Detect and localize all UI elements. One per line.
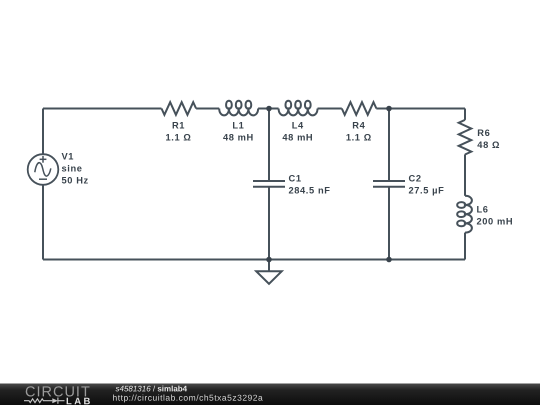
svg-text:L1: L1: [232, 120, 244, 130]
svg-text:284.5 nF: 284.5 nF: [289, 186, 331, 196]
svg-text:48 Ω: 48 Ω: [477, 140, 500, 150]
svg-text:http://circuitlab.com/ch5txa5z: http://circuitlab.com/ch5txa5z3292a: [112, 393, 263, 403]
svg-text:C1: C1: [289, 174, 302, 184]
svg-text:V1: V1: [62, 151, 75, 161]
svg-text:LAB: LAB: [66, 396, 93, 405]
svg-text:200 mH: 200 mH: [477, 217, 514, 227]
svg-text:1.1 Ω: 1.1 Ω: [166, 132, 192, 142]
svg-text:1.1 Ω: 1.1 Ω: [346, 132, 372, 142]
svg-text:48 mH: 48 mH: [282, 132, 313, 142]
svg-text:R4: R4: [352, 120, 365, 130]
svg-text:sine: sine: [62, 163, 83, 173]
svg-text:R1: R1: [172, 120, 185, 130]
svg-text:27.5 µF: 27.5 µF: [409, 186, 445, 196]
svg-text:48 mH: 48 mH: [223, 132, 254, 142]
svg-text:C2: C2: [409, 174, 422, 184]
svg-text:L4: L4: [292, 120, 304, 130]
svg-text:50 Hz: 50 Hz: [62, 175, 89, 185]
svg-text:R6: R6: [477, 128, 490, 138]
svg-text:L6: L6: [477, 205, 489, 215]
